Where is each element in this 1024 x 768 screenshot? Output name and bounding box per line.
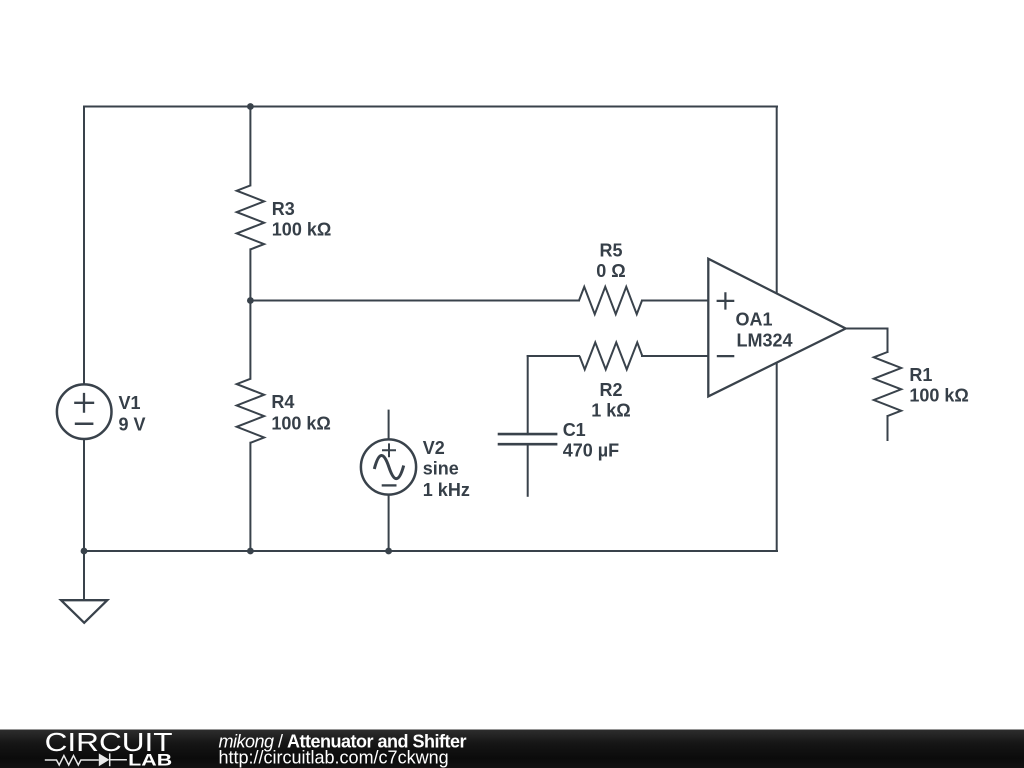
- svg-text:LM324: LM324: [737, 330, 793, 350]
- voltage source V2 (sine): [361, 439, 416, 494]
- wire op-amp power rail vertical: [776, 107, 778, 552]
- node B (divider mid node): [247, 297, 254, 304]
- resistor R2: [580, 342, 643, 369]
- svg-text:sine: sine: [423, 459, 459, 479]
- wire left rail (top of V1): [83, 107, 85, 385]
- footer bar: [0, 730, 1024, 768]
- wire ground stub: [83, 551, 85, 600]
- resistor R5: [579, 287, 642, 314]
- svg-text:0 Ω: 0 Ω: [596, 261, 625, 281]
- node A (top rail / divider junction): [247, 103, 254, 110]
- wire op-amp output: [846, 328, 888, 330]
- svg-text:LAB: LAB: [128, 752, 172, 768]
- wire V2 top stub (open): [388, 411, 390, 440]
- wire C1 bottom lead (open): [527, 444, 529, 496]
- wire divider top (node to R3): [249, 107, 251, 186]
- node E (ground rail at V2): [385, 548, 392, 555]
- node C (ground rail at V1): [81, 548, 88, 555]
- wire R4 bottom to rail: [249, 443, 251, 551]
- wire R1 bottom stub (open): [887, 416, 889, 440]
- wire C1 top node to R2 left: [528, 355, 579, 357]
- svg-text:C1: C1: [563, 420, 586, 440]
- op-amp OA1: [708, 259, 845, 397]
- wire top rail: [84, 106, 777, 108]
- svg-text:1 kΩ: 1 kΩ: [591, 401, 630, 421]
- resistor R3: [237, 185, 264, 249]
- svg-text:R5: R5: [599, 241, 622, 261]
- capacitor C1: [498, 434, 558, 444]
- svg-text:R1: R1: [909, 365, 932, 385]
- wire R5 to op-amp + input: [642, 300, 708, 302]
- wire bottom rail: [84, 550, 777, 552]
- voltage source V1: [57, 384, 112, 439]
- svg-text:100 kΩ: 100 kΩ: [909, 386, 968, 406]
- wire mid node to R5: [250, 300, 579, 302]
- svg-text:V2: V2: [423, 438, 445, 458]
- svg-text:http://circuitlab.com/c7ckwng: http://circuitlab.com/c7ckwng: [219, 748, 449, 768]
- svg-text:100 kΩ: 100 kΩ: [272, 220, 331, 240]
- resistor R4: [237, 379, 264, 443]
- CircuitLab logo resistor-diode symbol: [45, 753, 127, 766]
- resistor R1: [874, 352, 901, 416]
- ground: [61, 600, 107, 623]
- wire R1 top lead: [887, 329, 889, 353]
- svg-text:1 kHz: 1 kHz: [423, 480, 470, 500]
- wire V1 bottom to bottom rail: [83, 439, 85, 551]
- wire R3 to R4 through mid node: [249, 249, 251, 378]
- svg-text:OA1: OA1: [736, 309, 773, 329]
- node D (ground rail at R4): [247, 548, 254, 555]
- svg-text:R2: R2: [599, 380, 622, 400]
- wire C1 top lead: [527, 356, 529, 434]
- svg-text:R4: R4: [271, 392, 294, 412]
- svg-text:100 kΩ: 100 kΩ: [271, 414, 330, 434]
- svg-text:V1: V1: [119, 393, 141, 413]
- svg-text:470 µF: 470 µF: [563, 440, 619, 460]
- wire V2 bottom lead: [388, 495, 390, 551]
- svg-text:9 V: 9 V: [119, 414, 146, 434]
- wire R2 to op-amp - input: [642, 355, 708, 357]
- svg-text:R3: R3: [272, 199, 295, 219]
